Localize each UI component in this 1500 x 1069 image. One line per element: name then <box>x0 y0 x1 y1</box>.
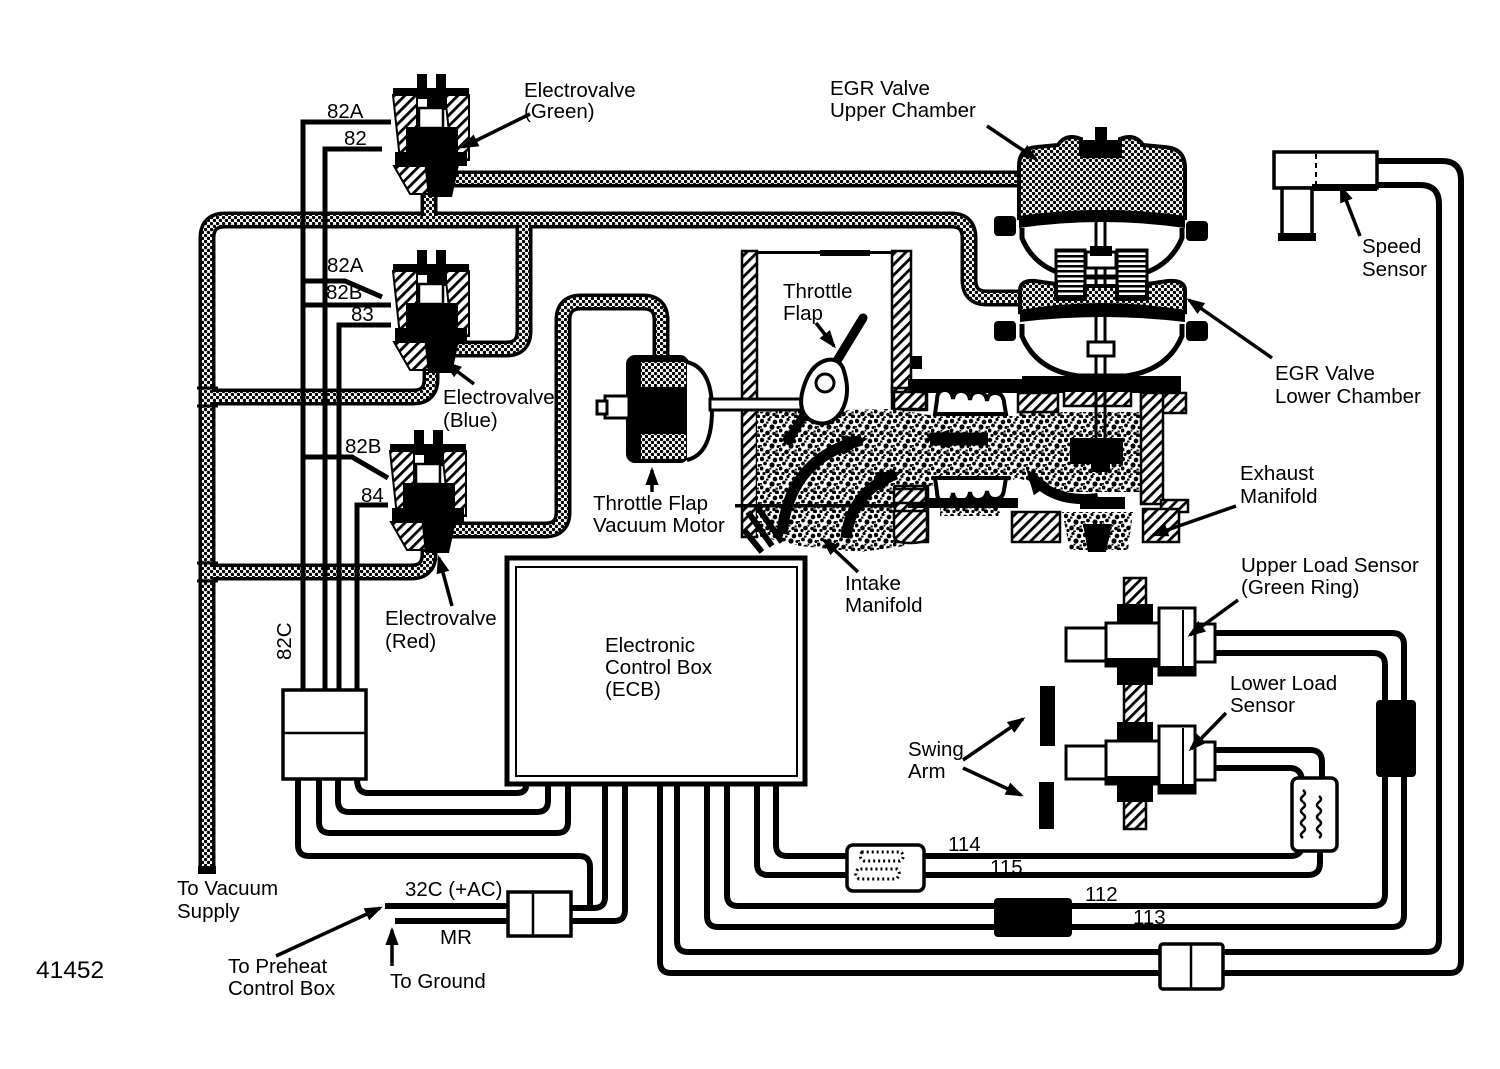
black inline box on wires 112/113 <box>994 898 1072 937</box>
wire: lower load sensor lead 1 <box>1214 750 1322 782</box>
wire 32C (+AC) lead <box>385 903 508 909</box>
svg-text:Speed: Speed <box>1362 235 1421 258</box>
electrovalve (Red) <box>390 430 466 553</box>
svg-text:(Blue): (Blue) <box>443 409 498 432</box>
svg-text:(Red): (Red) <box>385 630 436 653</box>
wire: connector box pin 2 to ECB <box>319 779 568 833</box>
wire: upper load sensor lead 2 <box>1214 653 1385 705</box>
left flange blocks <box>894 392 926 409</box>
top bolt <box>1095 127 1107 142</box>
wire 82B stub from blue electrovalve <box>303 303 391 308</box>
svg-text:EGR Valve: EGR Valve <box>830 77 930 100</box>
black mass at valve seat <box>1070 438 1123 464</box>
wire: MR connector to ECB pin 2 <box>571 786 625 921</box>
wire 82C: connector box to MR connector junction <box>298 779 590 906</box>
wire 83 from blue electrovalve to connector <box>339 325 391 690</box>
svg-text:(ECB): (ECB) <box>605 678 661 701</box>
svg-text:To Ground: To Ground <box>390 970 486 993</box>
wire 82A: green electrovalve down to junction chain <box>303 122 391 690</box>
svg-text:Upper Load Sensor: Upper Load Sensor <box>1241 554 1419 577</box>
svg-text:83: 83 <box>351 303 374 326</box>
svg-text:112: 112 <box>1085 883 1118 906</box>
svg-text:82C: 82C <box>273 622 296 660</box>
center collar <box>1086 252 1116 268</box>
svg-text:Intake: Intake <box>845 572 901 595</box>
wire 82B branch to red electrovalve <box>303 457 388 478</box>
upper diaphragm black band <box>1019 210 1185 228</box>
floor line <box>735 504 902 508</box>
svg-text:Electronic: Electronic <box>605 634 695 657</box>
wire: ECB to speed sensor (outer loop) <box>660 161 1461 973</box>
upper bellows <box>908 379 1018 393</box>
svg-text:32C (+AC): 32C (+AC) <box>405 878 502 901</box>
wire 115: ECB to lower load sensor coil component <box>757 786 1320 875</box>
upper load sensor <box>1066 604 1215 685</box>
svg-text:113: 113 <box>1133 906 1166 929</box>
right wall <box>892 251 911 392</box>
svg-text:Swing: Swing <box>908 738 964 761</box>
wire: connector box pin 3 to ECB <box>338 779 548 812</box>
EGR flange black bar <box>1018 379 1178 393</box>
svg-text:Upper Chamber: Upper Chamber <box>830 99 976 122</box>
hose: supply tee to red electrovalve bottom <box>210 538 429 572</box>
dark streaks lower-left of manifold <box>744 508 782 552</box>
svg-text:Throttle Flap: Throttle Flap <box>593 492 708 515</box>
left wall <box>742 251 757 537</box>
svg-text:Lower Chamber: Lower Chamber <box>1275 385 1421 408</box>
svg-text:Supply: Supply <box>177 900 240 923</box>
wire 114: ECB to lower load sensor coil component <box>776 786 1302 856</box>
svg-text:Arm: Arm <box>908 760 946 783</box>
svg-text:Throttle: Throttle <box>783 280 853 303</box>
wire: MR connector to ECB pin <box>571 786 605 908</box>
connector box (left, 82C bundle) <box>283 690 366 779</box>
inline filter on wires 114/115 <box>847 845 924 891</box>
hose: vacuum supply vertical + run to EGR lower chamber <box>207 220 1025 872</box>
black box (right pair) <box>1376 700 1416 777</box>
hatched bolt in manifold <box>895 486 928 542</box>
stem <box>1096 160 1105 462</box>
upper chamber lower bowl <box>1022 228 1182 277</box>
spring blocks <box>1056 250 1085 299</box>
svg-text:To Preheat: To Preheat <box>228 955 327 978</box>
MR / 32C connector <box>508 892 571 936</box>
wire: upper load sensor lead 1 <box>1214 633 1404 705</box>
supply hose bottom end cap <box>198 866 216 874</box>
lower chamber bowl <box>1022 324 1182 376</box>
svg-text:Sensor: Sensor <box>1362 258 1427 281</box>
lower bellows <box>935 478 1006 502</box>
svg-text:To Vacuum: To Vacuum <box>177 877 278 900</box>
coil component (lower load sensor) <box>1292 778 1337 851</box>
hose: blue electrovalve branch to supply run <box>450 222 524 349</box>
hose: green electrovalve to EGR upper chamber <box>452 171 1025 188</box>
svg-text:Electrovalve: Electrovalve <box>385 607 497 630</box>
wire: ECB to speed sensor (inner loop) <box>677 185 1439 952</box>
hose: red electrovalve to throttle flap vacuum motor <box>448 302 661 530</box>
electrovalve (Green) <box>393 74 469 197</box>
svg-text:Sensor: Sensor <box>1230 694 1295 717</box>
wire 112: ECB to upper load sensor black box <box>727 750 1385 906</box>
svg-text:Manifold: Manifold <box>845 594 923 617</box>
lower load sensor <box>1066 722 1215 802</box>
upper chamber dome (stippled) <box>1019 137 1185 218</box>
hose: green electrovalve down-tube tee <box>421 162 438 222</box>
electrovalve (Blue) <box>393 250 469 373</box>
bottom flange <box>1022 376 1181 392</box>
svg-text:(Green Ring): (Green Ring) <box>1241 576 1360 599</box>
svg-text:114: 114 <box>948 833 981 856</box>
svg-text:Control Box: Control Box <box>228 977 336 1000</box>
nubs row 2 <box>994 321 1016 341</box>
shared hatched stud <box>1124 578 1146 829</box>
supply hose junction ticks <box>197 388 218 581</box>
wire: lower load sensor lead 2 <box>1214 768 1302 782</box>
svg-text:82: 82 <box>344 127 367 150</box>
bore top line <box>756 251 892 254</box>
svg-text:Electrovalve: Electrovalve <box>524 79 636 102</box>
curved flow arrows <box>782 440 862 534</box>
svg-text:82B: 82B <box>345 435 381 458</box>
svg-text:MR: MR <box>440 926 472 949</box>
svg-text:Flap: Flap <box>783 302 823 325</box>
wire 84 from red electrovalve to connector <box>357 505 388 690</box>
side nubs <box>994 216 1016 236</box>
lower chamber stipple band <box>1020 281 1185 312</box>
svg-text:84: 84 <box>361 484 384 507</box>
white connector on bottom wires <box>1160 944 1223 989</box>
svg-text:Manifold: Manifold <box>1240 485 1318 508</box>
lower diaphragm band <box>1020 306 1185 322</box>
svg-text:Electrovalve: Electrovalve <box>443 386 555 409</box>
wire 82 from green electrovalve to connector <box>325 149 382 690</box>
wire 113: ECB to upper load sensor black box <box>707 750 1404 927</box>
svg-text:(Green): (Green) <box>524 100 595 123</box>
wire 82A branch to blue electrovalve <box>303 281 382 297</box>
svg-text:Lower Load: Lower Load <box>1230 672 1337 695</box>
wire MR lead to ground <box>395 918 508 924</box>
svg-text:41452: 41452 <box>36 957 104 984</box>
svg-text:Vacuum Motor: Vacuum Motor <box>593 514 725 537</box>
svg-text:82B: 82B <box>326 281 362 304</box>
svg-text:Exhaust: Exhaust <box>1240 462 1314 485</box>
hose: supply tee to blue electrovalve bottom <box>210 358 431 397</box>
svg-text:Control Box: Control Box <box>605 656 713 679</box>
svg-text:82A: 82A <box>327 100 364 123</box>
wire: connector box pin 4 to ECB <box>357 779 526 793</box>
svg-text:115: 115 <box>990 856 1023 879</box>
svg-text:82A: 82A <box>327 254 364 277</box>
right pillar <box>1141 393 1186 413</box>
svg-text:EGR Valve: EGR Valve <box>1275 362 1375 385</box>
